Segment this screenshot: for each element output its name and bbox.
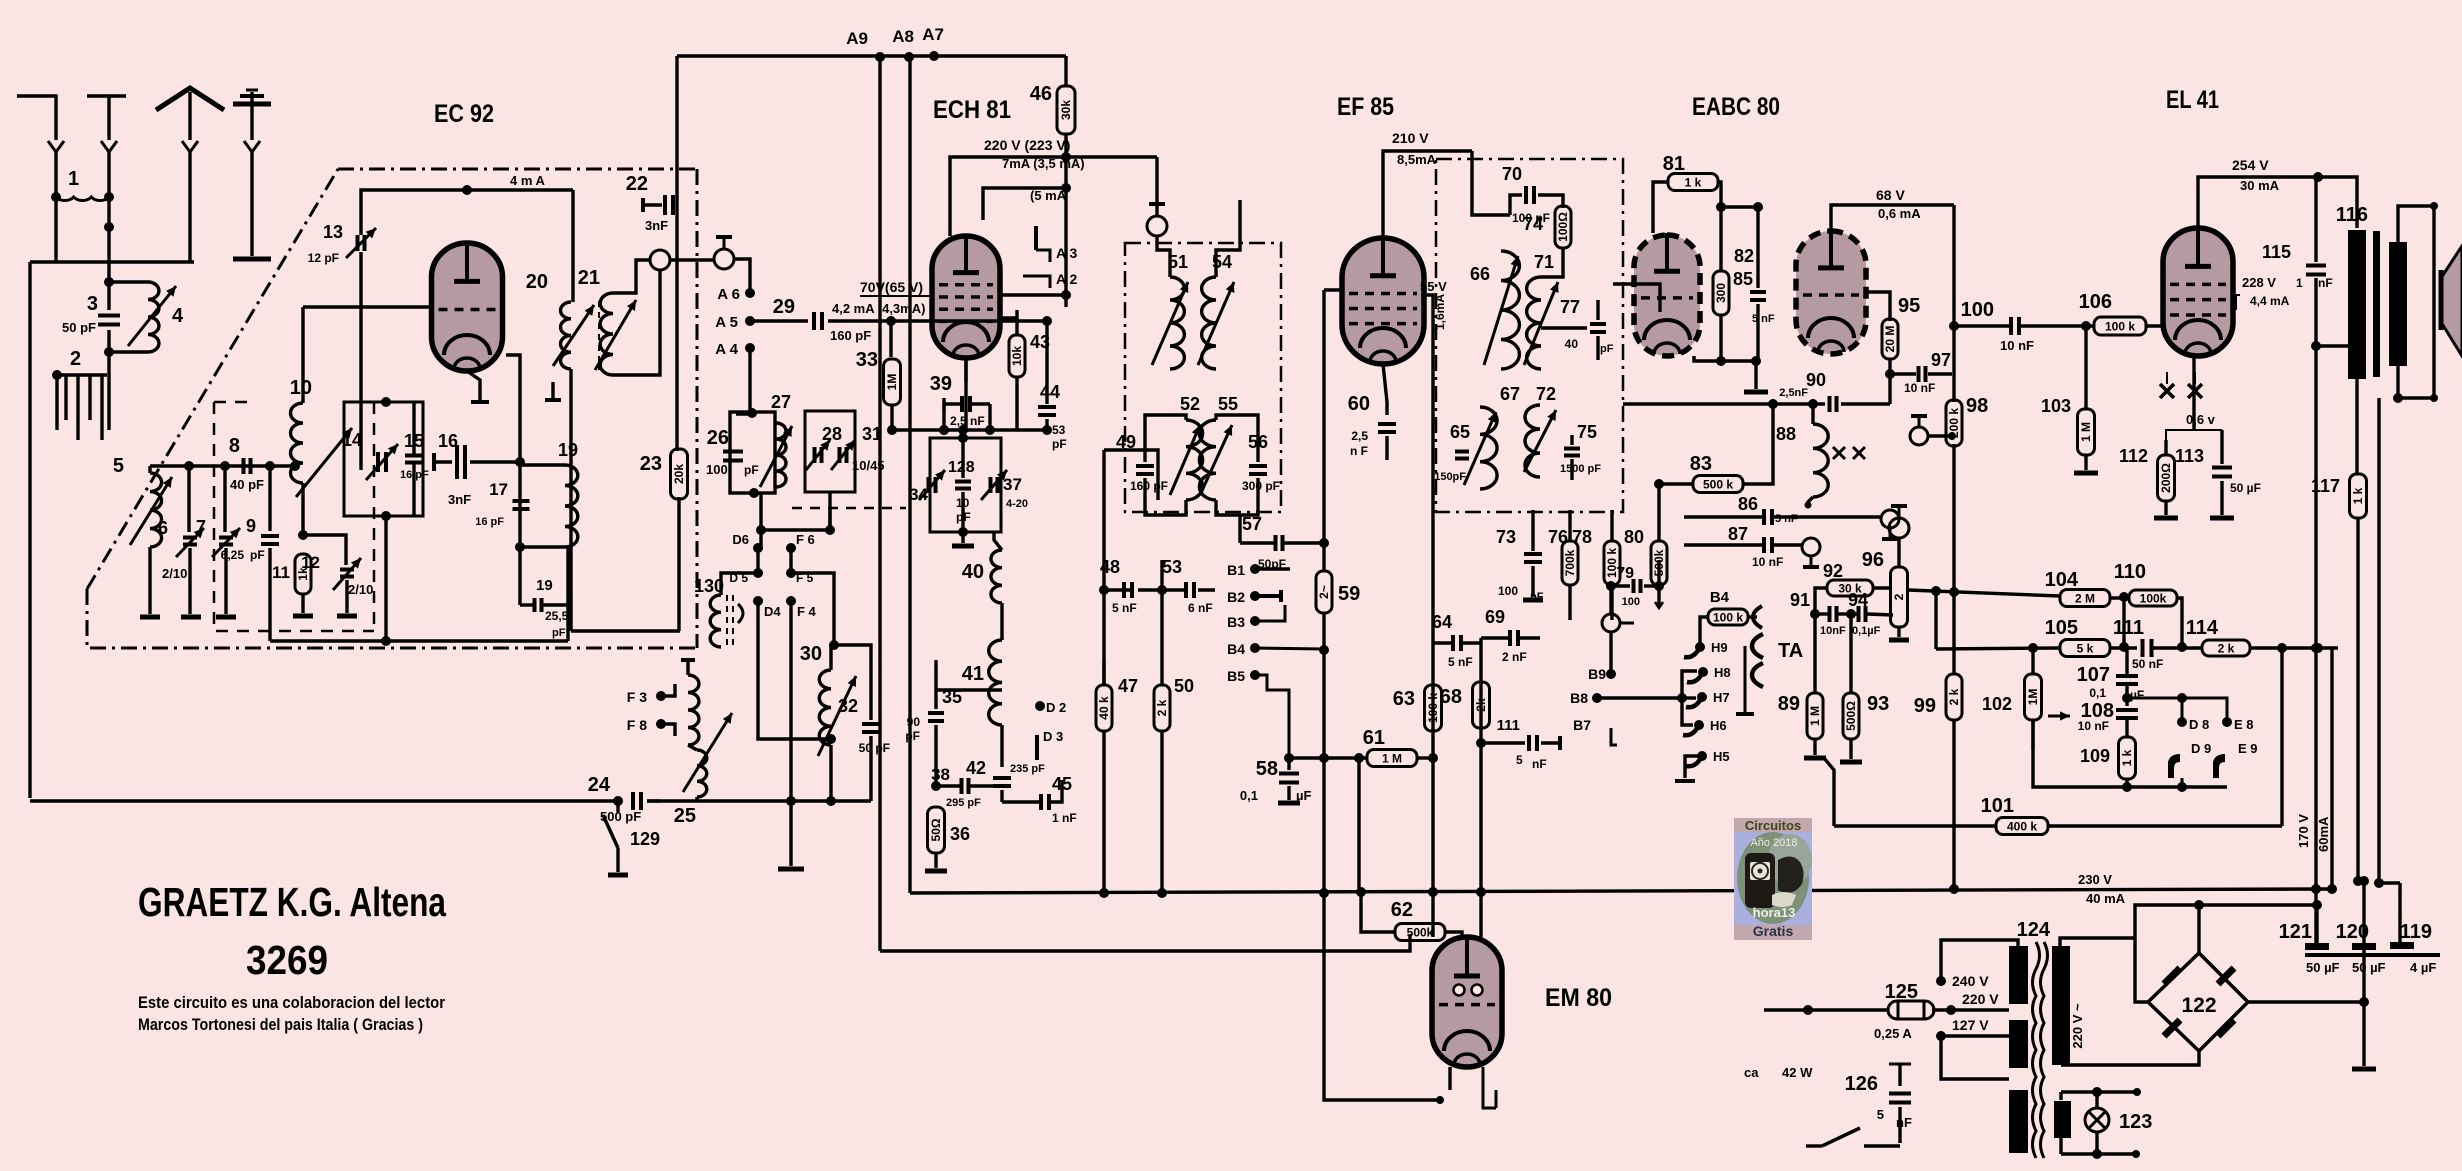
antenna terminal 1 bbox=[17, 96, 56, 140]
wire speaker return bbox=[2377, 398, 2380, 883]
coil L21 bbox=[600, 293, 613, 375]
resistor R96 bbox=[1891, 567, 1908, 627]
svg-text:67: 67 bbox=[1500, 384, 1520, 404]
svg-text:99: 99 bbox=[1914, 695, 1936, 717]
capacitor C29 160pF bbox=[812, 312, 816, 330]
trimmer C14 bbox=[376, 452, 380, 472]
wire main 59 line bbox=[1322, 290, 1325, 571]
svg-text:300 pF: 300 pF bbox=[1242, 479, 1280, 493]
svg-text:37: 37 bbox=[1003, 475, 1022, 494]
wire anode EC92 bbox=[361, 190, 573, 225]
svg-text:EF 85: EF 85 bbox=[1337, 93, 1394, 121]
terminals D9 E9 bbox=[2168, 754, 2180, 778]
svg-text:34: 34 bbox=[909, 485, 928, 504]
resistor R43 10k bbox=[1015, 310, 1018, 336]
svg-text:0,1: 0,1 bbox=[1240, 788, 1258, 803]
svg-text:123: 123 bbox=[2119, 1111, 2152, 1133]
svg-text:GRAETZ K.G. Altena: GRAETZ K.G. Altena bbox=[138, 879, 447, 925]
dashed coupling bbox=[792, 507, 906, 510]
capacitor C57 50pF bbox=[1238, 515, 1241, 543]
svg-text:90: 90 bbox=[1806, 370, 1826, 390]
coil L1 bbox=[51, 192, 61, 202]
resistor R63 100k bbox=[1425, 685, 1442, 731]
svg-text:80: 80 bbox=[1624, 527, 1644, 547]
coil L52 bbox=[1186, 420, 1203, 500]
resistor R76 700k bbox=[1562, 541, 1578, 585]
svg-text:40: 40 bbox=[962, 561, 984, 583]
svg-text:1,6mA: 1,6mA bbox=[1433, 294, 1447, 330]
svg-text:10nF: 10nF bbox=[1820, 625, 1846, 637]
svg-text:2 k: 2 k bbox=[2218, 642, 2235, 656]
svg-text:2 nF: 2 nF bbox=[1502, 650, 1527, 664]
svg-text:5: 5 bbox=[1877, 1107, 1884, 1122]
terminal B7 stub bbox=[1611, 728, 1617, 745]
svg-text:50Ω: 50Ω bbox=[929, 818, 943, 841]
wire osc bottom bbox=[647, 799, 871, 802]
wire grid row 430 bbox=[892, 428, 1047, 431]
svg-text:F 8: F 8 bbox=[627, 717, 647, 733]
svg-text:B4: B4 bbox=[1710, 589, 1730, 606]
svg-text:77: 77 bbox=[1560, 297, 1580, 317]
resistor R98 200k bbox=[1952, 326, 1955, 402]
svg-text:3nF: 3nF bbox=[645, 218, 668, 233]
svg-text:235 pF: 235 pF bbox=[1010, 763, 1045, 775]
trimmer C31 bbox=[838, 447, 842, 463]
svg-text:3nF: 3nF bbox=[448, 492, 471, 507]
capacitor C38 bbox=[934, 740, 937, 786]
resistor R83 500k bbox=[1659, 484, 1694, 510]
capacitor C45 1nF bbox=[1039, 794, 1043, 810]
svg-text:100 k: 100 k bbox=[2105, 320, 2135, 334]
jack 96 bbox=[1889, 518, 1909, 538]
svg-text:2,5: 2,5 bbox=[1351, 429, 1368, 443]
svg-text:2/10: 2/10 bbox=[348, 582, 373, 597]
wire cathode EC92 bbox=[467, 371, 480, 400]
svg-text:1 M: 1 M bbox=[1382, 752, 1402, 766]
svg-text:220 V ~: 220 V ~ bbox=[2070, 1003, 2085, 1049]
svg-text:121: 121 bbox=[2279, 921, 2312, 943]
svg-text:83: 83 bbox=[1690, 453, 1712, 475]
svg-text:240 V: 240 V bbox=[1952, 973, 1989, 989]
svg-text:53: 53 bbox=[1162, 557, 1182, 577]
capacitor C64 5nF bbox=[1451, 635, 1455, 651]
wire bbox=[54, 197, 57, 262]
resistor R50 bbox=[1160, 560, 1163, 685]
svg-text:5: 5 bbox=[113, 455, 124, 477]
wire EM80 verticals bbox=[1357, 758, 1360, 892]
resistor R92 30k bbox=[1827, 580, 1873, 596]
capacitor C107 bbox=[2122, 597, 2125, 647]
svg-text:50 nF: 50 nF bbox=[2132, 657, 2163, 671]
svg-text:60: 60 bbox=[1348, 393, 1370, 415]
svg-text:160 pF: 160 pF bbox=[830, 328, 871, 343]
svg-text:50 pF: 50 pF bbox=[62, 320, 96, 335]
svg-text:110: 110 bbox=[2114, 561, 2146, 583]
svg-text:31: 31 bbox=[862, 424, 882, 444]
svg-text:16: 16 bbox=[438, 431, 458, 451]
svg-text:101: 101 bbox=[1981, 795, 2014, 817]
svg-text:41: 41 bbox=[962, 663, 984, 685]
capacitor C16 3nF bbox=[432, 453, 436, 471]
resistor R117 1k bbox=[2350, 474, 2367, 518]
svg-text:1 M: 1 M bbox=[2079, 422, 2093, 442]
svg-text:Circuitos: Circuitos bbox=[1745, 818, 1801, 833]
svg-text:60mA: 60mA bbox=[2316, 816, 2331, 852]
resistor R89 1M bbox=[1813, 614, 1816, 692]
svg-text:30: 30 bbox=[800, 643, 822, 665]
svg-text:30k: 30k bbox=[1059, 100, 1073, 120]
svg-text:42 W: 42 W bbox=[1782, 1065, 1813, 1080]
svg-text:21: 21 bbox=[578, 267, 600, 289]
capacitor C70 100pF bbox=[1510, 195, 1522, 215]
resistor R93 500 bbox=[1849, 614, 1852, 692]
svg-text:8,5mA: 8,5mA bbox=[1397, 152, 1437, 167]
capacitor C73 100pF bbox=[1531, 510, 1534, 551]
svg-text:400 k: 400 k bbox=[2007, 820, 2037, 834]
resistor R81 1k bbox=[1668, 174, 1718, 191]
svg-text:1 k: 1 k bbox=[2120, 749, 2134, 766]
resistor R47 bbox=[1102, 660, 1105, 685]
svg-text:150pF: 150pF bbox=[1434, 471, 1466, 483]
svg-text:4,2 mA (4,3mA): 4,2 mA (4,3mA) bbox=[832, 301, 925, 316]
wire to 101 bbox=[1824, 758, 1834, 826]
svg-text:50: 50 bbox=[1174, 676, 1194, 696]
svg-text:50 pF: 50 pF bbox=[859, 741, 890, 755]
svg-text:98: 98 bbox=[1966, 395, 1988, 417]
svg-text:13: 13 bbox=[323, 222, 343, 242]
svg-text:100k: 100k bbox=[2140, 592, 2167, 606]
svg-text:100: 100 bbox=[1961, 299, 1994, 321]
coil L66 bbox=[1501, 251, 1519, 369]
resistor R68 bbox=[1473, 682, 1490, 728]
svg-text:1M: 1M bbox=[2026, 689, 2040, 706]
svg-text:10 nF: 10 nF bbox=[1752, 555, 1783, 569]
svg-text:74: 74 bbox=[1523, 214, 1543, 234]
wire F4 ground bbox=[789, 601, 792, 866]
svg-text:H7: H7 bbox=[1713, 690, 1730, 705]
svg-text:36: 36 bbox=[950, 824, 970, 844]
svg-text:D 9: D 9 bbox=[2191, 741, 2211, 756]
wire top bus bbox=[677, 54, 1066, 57]
svg-text:107: 107 bbox=[2077, 664, 2110, 686]
svg-text:228 V: 228 V bbox=[2242, 275, 2276, 290]
svg-text:65: 65 bbox=[1450, 422, 1470, 442]
svg-text:58: 58 bbox=[1256, 758, 1278, 780]
coil L27 variable bbox=[776, 423, 786, 487]
svg-text:E 8: E 8 bbox=[2234, 717, 2254, 732]
svg-text:111: 111 bbox=[2113, 617, 2144, 639]
wire right vertical 2332 bbox=[2330, 648, 2333, 889]
capacitor C111b 50nF bbox=[2141, 639, 2145, 657]
jack B9 79 bbox=[1606, 581, 1616, 591]
wire bottom long bbox=[30, 799, 618, 802]
svg-text:500k: 500k bbox=[1407, 926, 1434, 940]
terminals D8 E8 bbox=[2127, 698, 2227, 722]
svg-text:10: 10 bbox=[956, 496, 970, 510]
svg-text:1: 1 bbox=[2296, 276, 2303, 290]
svg-text:nF: nF bbox=[1896, 1115, 1912, 1130]
wire bottom link bbox=[270, 639, 568, 642]
wire grid line continue bbox=[932, 319, 1047, 322]
capacitor C128 bbox=[955, 480, 971, 484]
svg-text:38: 38 bbox=[931, 765, 950, 784]
svg-text:D 3: D 3 bbox=[1043, 729, 1063, 744]
svg-text:91: 91 bbox=[1790, 590, 1810, 610]
svg-text:µF: µF bbox=[2130, 688, 2144, 702]
capacitor C22 3nF bbox=[641, 198, 645, 212]
svg-text:12: 12 bbox=[301, 553, 320, 572]
svg-text:B8: B8 bbox=[1570, 690, 1588, 706]
svg-text:(5 mA: (5 mA bbox=[1030, 188, 1067, 203]
svg-text:5: 5 bbox=[1516, 753, 1523, 767]
svg-text:220 V (223 V): 220 V (223 V) bbox=[984, 137, 1070, 153]
svg-text:20: 20 bbox=[526, 271, 548, 293]
svg-text:55 V: 55 V bbox=[1420, 279, 1447, 294]
coil L65 bbox=[1480, 407, 1497, 489]
capacitor C8 40pF bbox=[242, 458, 246, 474]
svg-text:79: 79 bbox=[1616, 565, 1634, 582]
wire D4 bbox=[758, 601, 831, 739]
svg-text:71: 71 bbox=[1534, 252, 1554, 272]
svg-text:95: 95 bbox=[1898, 295, 1920, 317]
resistor R109 bbox=[2125, 718, 2128, 738]
svg-text:2/10: 2/10 bbox=[162, 566, 187, 581]
svg-text:129: 129 bbox=[630, 829, 660, 849]
svg-text:5 nF: 5 nF bbox=[1112, 601, 1137, 615]
tube EC92 bbox=[432, 243, 503, 371]
wire EF85 grid bbox=[1324, 288, 1344, 291]
svg-text:109: 109 bbox=[2080, 746, 2110, 766]
svg-text:90: 90 bbox=[907, 715, 921, 729]
tube EABC80 first bbox=[1634, 235, 1700, 356]
svg-text:F 3: F 3 bbox=[627, 689, 647, 705]
wire box riser bbox=[384, 516, 387, 641]
capacitor C15 bbox=[405, 454, 423, 458]
capacitor C35 bbox=[934, 690, 937, 709]
wire EL41 anode bbox=[2198, 177, 2318, 228]
svg-text:A 6: A 6 bbox=[717, 286, 740, 303]
svg-text:104: 104 bbox=[2045, 569, 2079, 591]
svg-text:119: 119 bbox=[2400, 921, 2432, 943]
svg-text:5 nF: 5 nF bbox=[1448, 655, 1473, 669]
svg-text:82: 82 bbox=[1734, 246, 1754, 266]
svg-text:6 nF: 6 nF bbox=[1188, 601, 1213, 615]
wire to IF jack bbox=[1155, 157, 1158, 215]
svg-text:1 k: 1 k bbox=[2351, 487, 2365, 504]
resistor R104 2M bbox=[2060, 590, 2110, 607]
svg-text:46: 46 bbox=[1030, 83, 1052, 105]
svg-text:10k: 10k bbox=[1010, 346, 1024, 366]
wire osc box bottoms bbox=[761, 492, 830, 530]
jack 97 bbox=[1910, 427, 1928, 445]
svg-text:20 M: 20 M bbox=[1883, 326, 1897, 353]
tube EL41 bbox=[2163, 228, 2233, 356]
wire transformer primary bbox=[2355, 379, 2358, 474]
trimmer C37 bbox=[989, 477, 993, 493]
svg-text:55: 55 bbox=[1218, 394, 1238, 414]
svg-text:92: 92 bbox=[1823, 561, 1843, 581]
tube EABC80 second bbox=[1796, 231, 1866, 354]
svg-text:24: 24 bbox=[588, 774, 611, 796]
wire 220V line bbox=[950, 157, 1157, 236]
svg-text:81: 81 bbox=[1663, 153, 1685, 175]
svg-text:hora13: hora13 bbox=[1753, 905, 1796, 920]
svg-text:89: 89 bbox=[1778, 693, 1800, 715]
resistor R112 200 bbox=[2164, 440, 2167, 456]
svg-text:117: 117 bbox=[2311, 476, 2340, 496]
capacitor C24 500pF bbox=[631, 792, 635, 810]
svg-text:50 µF: 50 µF bbox=[2306, 960, 2340, 975]
svg-text:61: 61 bbox=[1363, 727, 1385, 749]
svg-text:23: 23 bbox=[640, 453, 662, 475]
svg-text:230 V: 230 V bbox=[2078, 872, 2112, 887]
trimmer C28 bbox=[813, 447, 817, 463]
wire cap risers bbox=[2315, 905, 2318, 943]
svg-text:100: 100 bbox=[1498, 584, 1518, 598]
svg-text:pF: pF bbox=[552, 627, 566, 639]
resistor R82 bbox=[1719, 207, 1722, 271]
svg-text:B5: B5 bbox=[1227, 668, 1245, 684]
svg-text:114: 114 bbox=[2186, 617, 2219, 639]
wire eabc1 top node bbox=[1721, 205, 1758, 208]
EM80 leads bbox=[1448, 1067, 1451, 1090]
svg-text:14: 14 bbox=[342, 430, 362, 450]
dashed box tuner bbox=[214, 402, 374, 631]
svg-text:ca: ca bbox=[1744, 1065, 1759, 1080]
bridge rectifier 122 bbox=[2148, 953, 2248, 1051]
coil L72 bbox=[1525, 405, 1540, 477]
terminals D6 F6 bbox=[753, 543, 763, 553]
svg-text:113: 113 bbox=[2175, 446, 2204, 466]
svg-text:2 k: 2 k bbox=[1155, 699, 1169, 716]
coil L30 variable bbox=[829, 645, 832, 670]
svg-text:1 M: 1 M bbox=[1808, 706, 1822, 726]
coil L4 variable bbox=[109, 280, 148, 283]
capacitor C113 50uF bbox=[2220, 430, 2223, 464]
svg-text:73: 73 bbox=[1496, 527, 1516, 547]
svg-text:295 pF: 295 pF bbox=[946, 797, 981, 809]
logo badge bbox=[1734, 818, 1812, 940]
transformer taps bbox=[1936, 976, 1946, 986]
wire coil21 bottom bbox=[613, 270, 660, 375]
svg-text:9: 9 bbox=[246, 516, 256, 536]
box 26 27 bbox=[730, 412, 775, 493]
svg-text:100: 100 bbox=[706, 462, 728, 477]
svg-text:30 mA: 30 mA bbox=[2240, 178, 2280, 193]
wire ground line y787 bbox=[2033, 720, 2227, 787]
svg-text:B2: B2 bbox=[1227, 589, 1245, 605]
terminals D5 F5 bbox=[753, 568, 763, 578]
wire 120 riser bbox=[2358, 879, 2364, 882]
svg-text:A 3: A 3 bbox=[1056, 245, 1077, 261]
svg-text:39: 39 bbox=[930, 373, 952, 395]
svg-text:0,1: 0,1 bbox=[2089, 686, 2106, 700]
wire bridge bottom bbox=[2061, 1051, 2199, 1065]
heater stub bbox=[551, 382, 554, 398]
svg-text:pF: pF bbox=[1600, 343, 1614, 355]
svg-text:EC 92: EC 92 bbox=[434, 100, 494, 128]
resistor R103 1M bbox=[2081, 321, 2091, 331]
svg-text:100 k: 100 k bbox=[1713, 611, 1743, 625]
IF transformer box 1 bbox=[1125, 243, 1281, 512]
svg-text:pF: pF bbox=[905, 729, 920, 743]
svg-text:16 pF: 16 pF bbox=[400, 469, 429, 481]
svg-text:Año 2018: Año 2018 bbox=[1750, 837, 1797, 849]
svg-text:D4: D4 bbox=[764, 604, 781, 619]
speaker bbox=[2398, 206, 2434, 242]
wire grid EC92 bbox=[303, 305, 433, 308]
tube EF85 bbox=[1342, 238, 1424, 364]
svg-text:64: 64 bbox=[1432, 612, 1452, 632]
svg-text:EL 41: EL 41 bbox=[2166, 86, 2219, 114]
terminal D2 D3 bbox=[1035, 701, 1045, 711]
terminals A6 A5 A4 bbox=[745, 288, 755, 298]
wire H5 ground bbox=[1685, 756, 1702, 778]
svg-text:52: 52 bbox=[1180, 394, 1200, 414]
svg-text:40: 40 bbox=[1565, 337, 1579, 351]
capacitor C39 bbox=[964, 358, 967, 382]
wire 5mA bbox=[983, 188, 1066, 220]
svg-text:26: 26 bbox=[707, 427, 729, 449]
wire g2 bbox=[1000, 293, 1066, 296]
svg-text:pF: pF bbox=[956, 510, 971, 524]
svg-text:1M: 1M bbox=[885, 374, 899, 391]
svg-text:B7: B7 bbox=[1573, 717, 1591, 733]
svg-text:27: 27 bbox=[771, 392, 791, 412]
trimmer C34 bbox=[927, 477, 931, 493]
svg-text:57: 57 bbox=[1242, 514, 1262, 534]
svg-text:63: 63 bbox=[1393, 688, 1415, 710]
svg-text:500 k: 500 k bbox=[1703, 478, 1733, 492]
svg-text:42: 42 bbox=[966, 758, 986, 778]
terminal hooks H bbox=[1695, 642, 1705, 652]
svg-text:Gratis: Gratis bbox=[1753, 923, 1794, 939]
svg-text:2: 2 bbox=[1892, 593, 1906, 600]
svg-text:44: 44 bbox=[1040, 382, 1060, 402]
svg-text:700k: 700k bbox=[1563, 549, 1577, 576]
svg-text:10: 10 bbox=[290, 377, 312, 399]
wire A5 to grid bbox=[750, 319, 808, 322]
coil L25 variable bbox=[688, 745, 697, 750]
svg-text:25,5: 25,5 bbox=[545, 609, 569, 623]
svg-text:102: 102 bbox=[1982, 694, 2012, 714]
svg-text:F 6: F 6 bbox=[796, 532, 815, 547]
svg-text:68 V: 68 V bbox=[1876, 187, 1905, 203]
tube ECH81 bbox=[932, 236, 1000, 358]
svg-text:128: 128 bbox=[948, 459, 975, 476]
svg-text:53: 53 bbox=[1052, 423, 1066, 437]
box 28 31 bbox=[805, 411, 855, 492]
svg-text:97: 97 bbox=[1931, 350, 1951, 370]
svg-text:86: 86 bbox=[1738, 494, 1758, 514]
svg-text:A8: A8 bbox=[892, 27, 914, 46]
svg-text:TA: TA bbox=[1778, 640, 1803, 662]
svg-text:ECH 81: ECH 81 bbox=[933, 96, 1011, 124]
capacitor C18 25,5pF bbox=[533, 598, 537, 612]
resistor R101 400k bbox=[1834, 824, 1997, 827]
wire eabc2 anode bbox=[1831, 205, 1954, 231]
svg-text:48: 48 bbox=[1100, 557, 1120, 577]
earth antenna symbol bbox=[250, 92, 253, 140]
capacitor C26 100pF bbox=[723, 450, 743, 454]
terminal A13 A12 bbox=[1034, 226, 1038, 250]
coil L20 variable bbox=[571, 190, 574, 302]
capacitor C75 1500pF bbox=[1564, 447, 1580, 451]
wire main verticals bbox=[878, 57, 881, 951]
capacitor C53 6nF bbox=[1184, 582, 1188, 598]
svg-text:10 nF: 10 nF bbox=[2000, 338, 2034, 353]
X marks bbox=[1833, 447, 1845, 459]
